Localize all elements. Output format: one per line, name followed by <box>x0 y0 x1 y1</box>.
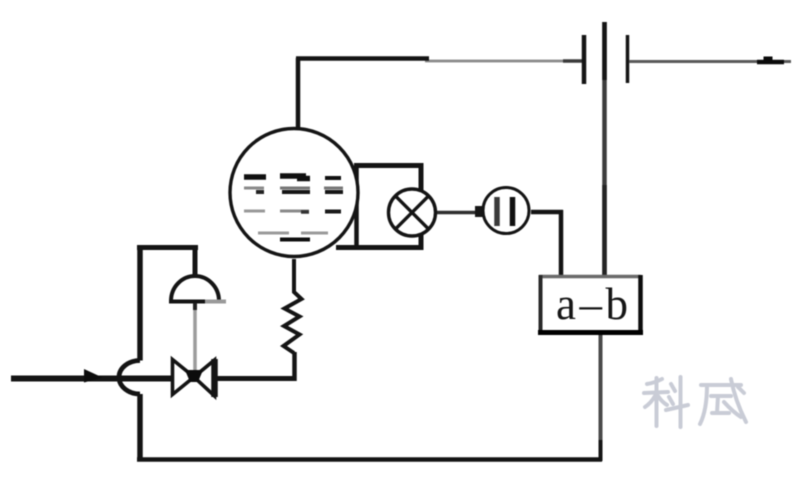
vessel hatch row 2 <box>244 188 343 192</box>
jacket rectangle around pump <box>354 166 359 248</box>
watermark glyph KE (science) <box>644 377 688 427</box>
bottom rail <box>137 457 602 462</box>
wire right output <box>629 60 791 63</box>
junction blob at instrument inlet <box>475 206 483 217</box>
pipe inlet <box>11 376 172 382</box>
wire right output dark end <box>757 60 784 65</box>
flow arrow on inlet pipe <box>84 369 103 383</box>
wire vessel-top riser <box>296 58 301 129</box>
valve center plug <box>185 370 203 382</box>
capacitor right plate <box>626 35 630 83</box>
valve right flange bar <box>211 359 218 397</box>
wire box a-b to bottom rail <box>599 335 603 461</box>
actuator diaphragm dome <box>171 276 219 301</box>
left rail upper <box>137 245 143 361</box>
svg-text:a–b: a–b <box>556 279 631 329</box>
hop over pipe <box>119 361 140 395</box>
vessel hatch row 4 <box>258 232 328 235</box>
spring (zigzag) <box>284 259 302 353</box>
vessel hatch row 1 <box>244 176 341 179</box>
wire instrument to box a-b <box>531 210 563 215</box>
pump P1 (circle with X) <box>389 189 436 236</box>
control valve body right <box>194 360 215 396</box>
pipe valve to spring leg <box>216 376 297 381</box>
left rail lower <box>137 394 143 461</box>
spring leg elbow <box>292 352 297 381</box>
control valve body left <box>173 360 195 395</box>
valve stem <box>193 303 197 372</box>
tick on right output wire <box>764 57 773 63</box>
actuator stub <box>193 247 198 278</box>
watermark glyph WEI (power) <box>700 379 746 424</box>
box a-b <box>538 275 643 334</box>
vessel hatch row 5 <box>280 238 310 242</box>
wire capacitor middle electrode (down to box a-b) <box>602 22 607 276</box>
vessel V1 <box>230 129 358 257</box>
vessel hatch row 3 <box>244 211 341 212</box>
instrument circle II <box>483 188 529 234</box>
wire pump to instrument <box>437 211 484 215</box>
capacitor left plate <box>582 35 587 84</box>
wire left-rail to actuator <box>137 245 198 250</box>
wire top horizontal to capacitor <box>425 60 584 63</box>
wire middle electrode dark top <box>602 22 607 80</box>
